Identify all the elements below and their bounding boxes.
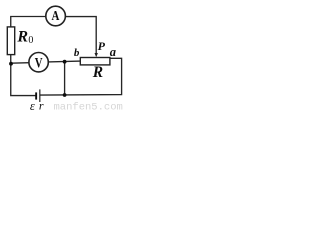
- svg-text:0: 0: [28, 35, 33, 46]
- svg-text:ε: ε: [30, 99, 35, 113]
- svg-text:b: b: [74, 47, 80, 59]
- svg-text:manfen5.com: manfen5.com: [54, 102, 123, 114]
- svg-text:R: R: [92, 64, 103, 81]
- svg-text:R: R: [16, 29, 28, 46]
- svg-text:P: P: [98, 39, 106, 53]
- svg-text:V: V: [35, 54, 43, 71]
- svg-text:r: r: [39, 99, 44, 113]
- svg-text:A: A: [52, 8, 60, 24]
- svg-text:a: a: [110, 45, 116, 59]
